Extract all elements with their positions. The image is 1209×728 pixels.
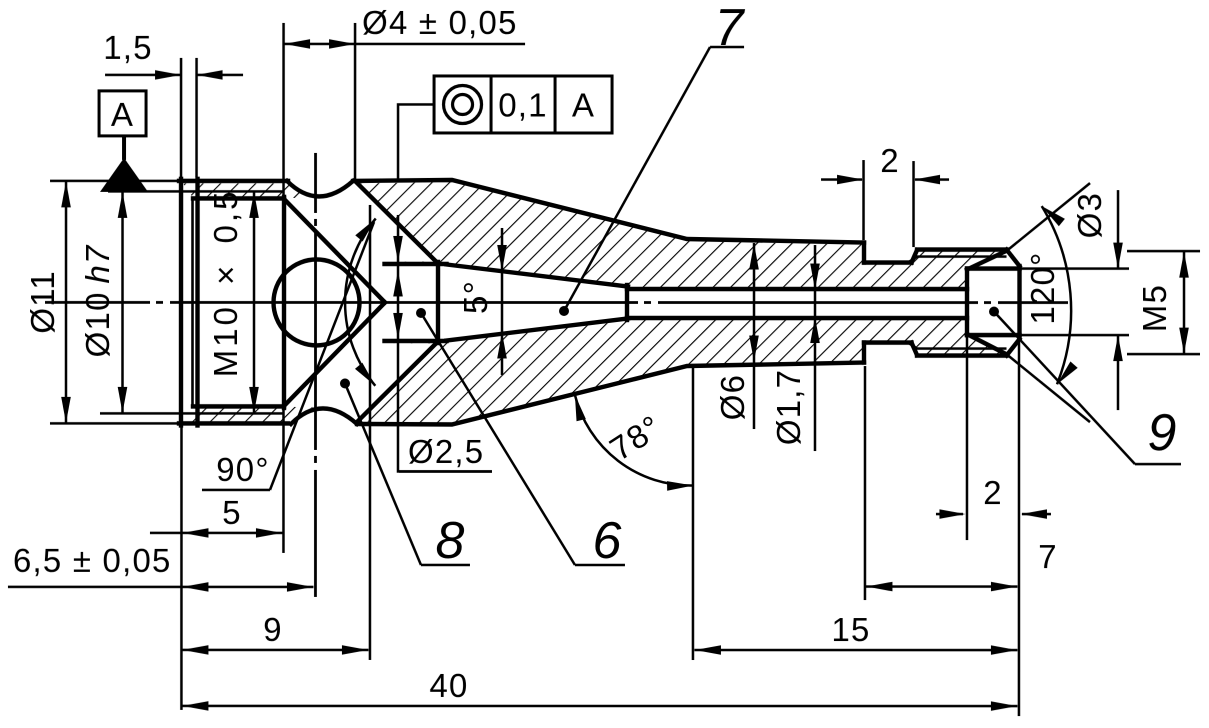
- wire: seat end vertical: [436, 262, 440, 343]
- arrow 7dim left: [866, 582, 892, 592]
- arrow 1,5 right: [155, 70, 181, 80]
- dot callout 7: [559, 306, 569, 316]
- svg-text:6: 6: [592, 512, 621, 570]
- wire: taper lower: [447, 318, 629, 340]
- svg-text:5: 5: [222, 494, 242, 531]
- dim Ø4 line: [284, 43, 526, 46]
- dim Ø10h7 line: [121, 191, 124, 413]
- arrow bore4 top outside: [393, 236, 403, 262]
- ext tip left up: [912, 161, 915, 247]
- wire: taper end step: [625, 285, 629, 320]
- ext left face down: [180, 427, 183, 710]
- svg-text:7: 7: [1038, 538, 1058, 575]
- dim Ø6 line: [753, 243, 756, 429]
- svg-text:15: 15: [831, 611, 870, 648]
- ext Ø11 bottom: [50, 422, 180, 425]
- arrow Ø10h7 down: [118, 387, 128, 413]
- svg-text:Ø6: Ø6: [714, 374, 751, 420]
- wire: groove bottom top: [864, 260, 912, 264]
- wire: outer cone top: [353, 180, 864, 243]
- ext knee down: [692, 368, 695, 660]
- svg-text:Ø11: Ø11: [24, 270, 61, 334]
- centerline ball vertical: [314, 153, 317, 597]
- dim M10 line: [253, 192, 256, 413]
- wire: left face outer collar: [179, 179, 183, 426]
- ext M5 bottom: [1127, 353, 1200, 356]
- arrow Ø6 down: [749, 336, 759, 362]
- arrow M10 up: [249, 192, 259, 218]
- wire: seat cone lower: [356, 341, 438, 423]
- ext 1,5 left: [180, 58, 183, 177]
- centerline main axis: [45, 301, 1068, 304]
- arrow 15 left: [695, 645, 721, 655]
- wire: counterbore top: [967, 266, 1020, 270]
- wire: bore end edge: [965, 269, 969, 336]
- ext Ø11 top: [50, 180, 180, 183]
- svg-text:A: A: [111, 96, 134, 133]
- svg-text:Ø1,7: Ø1,7: [770, 369, 807, 445]
- arrow 9 right: [342, 645, 368, 655]
- hatch sleeve wall top: [183, 183, 310, 198]
- hatch body bottom band: [357, 318, 1004, 423]
- svg-text:A: A: [572, 86, 595, 123]
- svg-text:Ø2,5: Ø2,5: [408, 433, 484, 470]
- svg-text:9: 9: [1148, 404, 1177, 462]
- dim 40 line: [182, 705, 1018, 708]
- arrow 40 right: [991, 701, 1017, 711]
- arrow Ø3 down: [1113, 243, 1123, 269]
- ext Ø4 right: [354, 23, 357, 179]
- arrow 5 right: [256, 528, 282, 538]
- frame box: [434, 76, 612, 133]
- wire: groove bottom bottom: [864, 340, 912, 344]
- wire: tip countersink lower: [967, 334, 1007, 355]
- wire: tip chamfer bottom: [1007, 339, 1020, 356]
- wire: collar inner vertical: [195, 179, 199, 426]
- wire: seat cone upper: [356, 182, 438, 264]
- dot callout 6: [416, 308, 426, 318]
- svg-text:M5: M5: [1136, 284, 1173, 332]
- dim Ø3 line: [1117, 190, 1120, 269]
- arrow 6,5 left: [182, 582, 208, 592]
- ext Ø4 left: [282, 23, 285, 196]
- ext groove left down: [864, 366, 867, 600]
- arrow Ø10h7 up: [118, 192, 128, 218]
- leader callout 8: [345, 383, 421, 565]
- arrow bore4 bottom: [393, 313, 403, 339]
- leader frame: [398, 104, 434, 179]
- leader callout 6: [421, 313, 575, 565]
- arrow 2top left: [914, 175, 940, 185]
- svg-text:9: 9: [263, 611, 283, 648]
- arrow 2top right: [837, 175, 863, 185]
- wire: taper upper: [447, 264, 629, 286]
- ext Ø3 top: [1021, 267, 1129, 270]
- wire: countersink V lower: [284, 302, 385, 406]
- arc seat 90: [345, 219, 376, 386]
- wire: thread bore bottom: [193, 404, 284, 408]
- datum box A: [99, 91, 146, 136]
- dim 1,5 line: [105, 74, 180, 77]
- arrow 78 lower: [667, 481, 693, 491]
- wire: sleeve outer top: [179, 179, 288, 183]
- arrow 40 left: [182, 701, 208, 711]
- svg-text:0,1: 0,1: [498, 86, 547, 123]
- wire: tip outer top: [917, 247, 1007, 251]
- wire: bore17 top: [627, 287, 967, 291]
- dot callout 9: [989, 307, 999, 317]
- svg-text:2: 2: [880, 142, 900, 179]
- wire: bore4 top: [385, 262, 447, 266]
- dim Ø1,7 line: [814, 245, 817, 451]
- arrow M5 down: [1179, 328, 1189, 354]
- ext 120 leg upper: [1007, 183, 1090, 251]
- wire: sleeve outer bottom: [179, 421, 288, 425]
- wire: counterbore bottom: [967, 333, 1020, 337]
- ext cone start down: [369, 205, 372, 660]
- wire: tip face: [1017, 266, 1021, 339]
- arrow 6,5 right: [287, 582, 313, 592]
- svg-text:5°: 5°: [457, 280, 494, 314]
- wire: groove chamfer top: [912, 250, 918, 263]
- arrow Ø3 up: [1113, 335, 1123, 361]
- ext 120 leg lower: [1007, 355, 1090, 423]
- arc 78: [575, 395, 693, 486]
- dim Ø11 line: [65, 181, 68, 423]
- arrow Ø1,7 down: [810, 264, 820, 290]
- datum stem: [122, 136, 126, 160]
- svg-text:8: 8: [435, 512, 464, 570]
- wire: face thread line: [191, 198, 194, 406]
- concentricity symbol: [444, 85, 482, 123]
- ext M5 top: [1127, 250, 1200, 253]
- wire: bore4 bottom: [385, 339, 447, 343]
- wire: neck dip bottom: [291, 408, 357, 424]
- line Ø2,5 underline: [399, 470, 492, 473]
- ext 1,5 right: [195, 58, 198, 177]
- arrow 5deg down: [497, 245, 507, 271]
- arrow 78 upper: [570, 394, 586, 422]
- arrow seat90 top: [355, 215, 379, 241]
- svg-text:Ø10 h7: Ø10 h7: [79, 244, 116, 357]
- arrow 9 left: [182, 645, 208, 655]
- arrow 5deg up: [497, 332, 507, 358]
- arrow Ø1,7 up: [810, 317, 820, 343]
- wire: countersink V upper: [284, 199, 385, 303]
- arrow 1,5 left: [197, 70, 223, 80]
- wire: groove step top: [862, 243, 866, 263]
- svg-text:7: 7: [715, 0, 746, 57]
- arrow bore4 top inside: [393, 270, 403, 296]
- wire: groove step bottom: [862, 343, 866, 363]
- svg-text:120°: 120°: [1024, 252, 1061, 325]
- wire: thread crest top + Ø10h7 ext: [108, 190, 284, 193]
- line 90deg underline: [202, 489, 270, 492]
- arrow 15 right: [991, 645, 1017, 655]
- ball circle: [274, 259, 360, 345]
- svg-text:40: 40: [429, 667, 468, 704]
- arrow Ø11 down: [61, 397, 71, 423]
- wire: thread crest bottom + ext: [100, 412, 284, 415]
- svg-text:Ø4 ± 0,05: Ø4 ± 0,05: [362, 4, 518, 41]
- arrow 7dim right: [991, 582, 1017, 592]
- arrow 5 left: [182, 528, 208, 538]
- wire: tip chamfer top: [1007, 250, 1020, 267]
- dim 2 top line: [821, 178, 862, 181]
- arrow Ø4 left: [284, 39, 310, 49]
- dot callout 8: [340, 378, 350, 388]
- svg-text:2: 2: [983, 474, 1003, 511]
- dim 15 line: [694, 649, 1017, 652]
- arrow Ø11 up: [61, 181, 71, 207]
- arrow Ø6 up: [749, 244, 759, 270]
- wire: M5 crest top: [908, 257, 1007, 263]
- ext bore-end down: [966, 337, 969, 540]
- wire: thread end shoulder: [282, 197, 286, 408]
- arrow seat90 bottom: [355, 363, 379, 389]
- leader callout 7: [564, 47, 710, 311]
- leader callout 9: [994, 312, 1135, 465]
- svg-text:6,5 ± 0,05: 6,5 ± 0,05: [13, 542, 172, 579]
- hatch body top band: [358, 182, 1005, 287]
- wire: neck dip top: [287, 181, 353, 197]
- dim 6,5 line: [8, 586, 314, 589]
- dim M5 line: [1183, 251, 1186, 354]
- datum triangle: [100, 158, 148, 192]
- arrow M5 up: [1179, 252, 1189, 278]
- leader 90deg: [270, 222, 374, 490]
- dim 5 line: [150, 532, 282, 535]
- dim 9 line: [182, 649, 368, 652]
- ext Ø3 bottom: [1021, 334, 1129, 337]
- wire: groove chamfer bottom: [912, 343, 918, 356]
- dim 7 line: [866, 585, 1018, 588]
- arrow Ø4 right: [329, 39, 355, 49]
- svg-text:M10 × 0,5: M10 × 0,5: [207, 189, 244, 378]
- leader Ø2,5 and bore dim line: [398, 215, 492, 472]
- arc 120: [1042, 206, 1071, 384]
- wire: tip countersink upper: [967, 251, 1007, 270]
- hatch sleeve wall bottom: [183, 407, 313, 422]
- ext thread end down: [282, 410, 285, 553]
- arrow M10 down: [249, 387, 259, 413]
- wire: tip outer bottom: [917, 353, 1007, 357]
- arrow 2bot left: [1021, 509, 1047, 519]
- wire: bore17 bottom: [627, 316, 967, 320]
- ext groove left up: [862, 160, 865, 240]
- dim 2 bottom line: [936, 513, 963, 516]
- arrow 120 bottom: [1053, 362, 1077, 388]
- wire: M5 crest bottom: [908, 343, 1007, 349]
- ext tip face down: [1018, 342, 1021, 716]
- svg-text:Ø3: Ø3: [1071, 192, 1108, 238]
- arrow 120 top: [1039, 202, 1065, 226]
- wire: thread bore top: [193, 196, 284, 200]
- svg-text:1,5: 1,5: [103, 29, 152, 66]
- arrow 2bot right: [939, 509, 965, 519]
- wire: outer cone bottom: [357, 362, 864, 424]
- svg-text:90°: 90°: [216, 451, 270, 488]
- dim 5deg line: [501, 228, 504, 375]
